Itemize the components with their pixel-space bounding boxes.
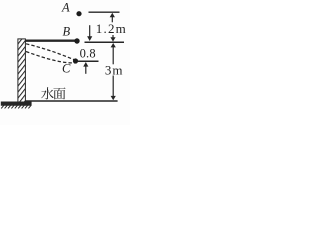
svg-text:A: A: [61, 1, 70, 15]
bent board lower dashed curve: [26, 52, 75, 63]
diving board (straight position): [25, 40, 75, 42]
svg-text:0.8: 0.8: [80, 47, 96, 61]
svg-text:1.2m: 1.2m: [96, 21, 127, 36]
water surface label 面 (drawn glyph): [53, 87, 65, 99]
A level reference line: [89, 11, 120, 13]
dimension 3m lower arrow (points down to water line): [112, 76, 114, 97]
dimension 3m upper arrow (points up to B line): [112, 46, 114, 65]
C level reference line: [78, 60, 99, 62]
dimension 0.8 upper arrow (points down to B line from above): [89, 25, 91, 36]
dimension 0.8 lower arrow (points up to C line from below): [85, 67, 87, 74]
pole (hatched support column): [18, 39, 26, 102]
water surface line: [26, 100, 118, 102]
point B dot (board tip): [74, 38, 79, 43]
svg-text:C: C: [62, 62, 71, 76]
point A dot: [76, 11, 81, 16]
point C dot (bent board tip): [73, 58, 78, 63]
B level reference line: [85, 41, 125, 43]
ground hatch ticks: [1, 105, 31, 108]
svg-text:3m: 3m: [105, 62, 124, 77]
water surface label 水 (drawn glyph): [41, 87, 54, 99]
dimension 1.2m upper arrow (points up to A line): [111, 14, 113, 22]
ground strip: [1, 101, 32, 105]
dimension 1.2m lower arrow (points down to B line): [112, 35, 114, 40]
svg-text:B: B: [63, 25, 71, 39]
bent board upper dashed curve: [26, 44, 76, 61]
